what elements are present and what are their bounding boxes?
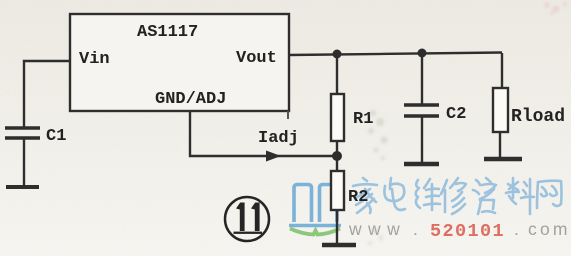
svg-text:R2: R2 [348, 188, 368, 207]
svg-text:Vout: Vout [236, 49, 277, 68]
svg-text:GND/ADJ: GND/ADJ [155, 90, 226, 109]
svg-text:www: www [348, 219, 406, 239]
svg-text:Vin: Vin [79, 50, 110, 69]
svg-text:520101: 520101 [430, 221, 505, 242]
svg-text:C2: C2 [446, 105, 466, 124]
svg-text:.: . [413, 219, 418, 239]
svg-text:AS1117: AS1117 [137, 23, 198, 42]
svg-text:com: com [528, 219, 571, 239]
svg-text:C1: C1 [46, 127, 66, 146]
svg-text:.: . [514, 219, 519, 239]
svg-text:Rload: Rload [511, 107, 565, 127]
svg-text:Iadj: Iadj [258, 129, 299, 148]
